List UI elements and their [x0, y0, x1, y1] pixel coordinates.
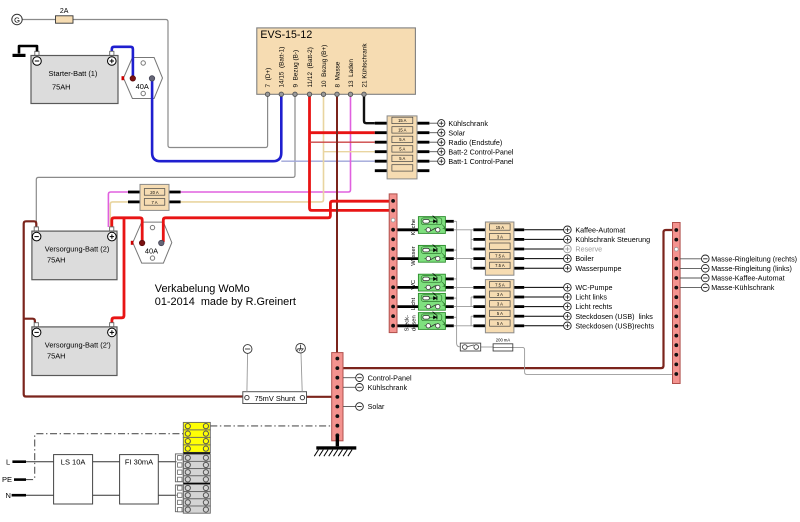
svg-text:5 A: 5 A	[497, 321, 503, 326]
svg-text:8 Masse: 8 Masse	[334, 61, 341, 87]
svg-text:75mV Shunt: 75mV Shunt	[254, 394, 295, 403]
svg-text:LS 10A: LS 10A	[61, 458, 86, 467]
svg-text:Licht rechts: Licht rechts	[575, 302, 612, 311]
svg-text:5 A: 5 A	[497, 311, 503, 316]
svg-text:21 Kühlschrank: 21 Kühlschrank	[361, 43, 368, 88]
svg-text:3 A: 3 A	[497, 302, 503, 307]
svg-text:7.5 A: 7.5 A	[495, 282, 505, 287]
svg-text:20 A: 20 A	[150, 190, 159, 195]
svg-text:Reserve: Reserve	[575, 245, 602, 254]
svg-text:PE: PE	[2, 475, 12, 484]
svg-text:Steck-: Steck-	[405, 315, 411, 331]
svg-text:15 A: 15 A	[496, 225, 505, 230]
svg-text:3 A: 3 A	[497, 234, 503, 239]
svg-text:Wasserpumpe: Wasserpumpe	[575, 264, 621, 273]
svg-text:Masse-Kühlschrank: Masse-Kühlschrank	[711, 283, 775, 292]
svg-text:WC: WC	[411, 280, 417, 290]
svg-text:dosen: dosen	[411, 315, 417, 331]
svg-text:Versorgung-Batt (2): Versorgung-Batt (2)	[45, 245, 110, 254]
svg-text:Kühlschrank Steuerung: Kühlschrank Steuerung	[575, 235, 650, 244]
svg-text:11/12 (Batt-2): 11/12 (Batt-2)	[307, 47, 314, 87]
svg-text:7 (D+): 7 (D+)	[265, 68, 272, 88]
svg-text:7 A: 7 A	[151, 200, 157, 205]
svg-text:7.5 A: 7.5 A	[495, 263, 505, 268]
svg-text:Verkabelung WoMo: Verkabelung WoMo	[155, 283, 250, 295]
svg-text:75AH: 75AH	[47, 256, 66, 265]
svg-text:Kaffee-Automat: Kaffee-Automat	[575, 225, 625, 234]
svg-text:Kühlschrank: Kühlschrank	[368, 383, 408, 392]
svg-text:Control-Panel: Control-Panel	[368, 373, 412, 382]
svg-text:WC-Pumpe: WC-Pumpe	[575, 283, 612, 292]
svg-text:13 Laden: 13 Laden	[348, 59, 355, 88]
svg-text:Solar: Solar	[368, 402, 385, 411]
svg-text:Boiler: Boiler	[575, 254, 594, 263]
svg-text:15 A: 15 A	[398, 128, 407, 133]
svg-text:15 A: 15 A	[398, 118, 407, 123]
svg-text:10 Bezug (B+): 10 Bezug (B+)	[321, 45, 328, 88]
svg-text:N: N	[6, 491, 11, 500]
svg-text:Solar: Solar	[448, 128, 465, 137]
svg-text:L: L	[6, 457, 10, 466]
svg-text:Küche: Küche	[411, 219, 417, 235]
svg-text:Masse-Ringleitung (rechts): Masse-Ringleitung (rechts)	[711, 254, 797, 263]
svg-text:Versorgung-Batt (2'): Versorgung-Batt (2')	[45, 340, 111, 349]
svg-text:5 A: 5 A	[399, 137, 405, 142]
svg-text:Masse-Ringleitung (links): Masse-Ringleitung (links)	[711, 264, 792, 273]
svg-text:200 mA: 200 mA	[496, 337, 511, 342]
svg-text:Wasser: Wasser	[411, 246, 417, 266]
svg-text:5 A: 5 A	[399, 156, 405, 161]
svg-text:7.5 A: 7.5 A	[495, 254, 505, 259]
svg-text:3 A: 3 A	[497, 292, 503, 297]
svg-text:Licht: Licht	[411, 297, 417, 310]
svg-text:Licht links: Licht links	[575, 293, 607, 302]
svg-text:40A: 40A	[145, 247, 158, 256]
svg-text:Batt-2 Control-Panel: Batt-2 Control-Panel	[448, 147, 514, 156]
svg-text:Steckdosen (USB)rechts: Steckdosen (USB)rechts	[575, 321, 654, 330]
svg-text:EVS-15-12: EVS-15-12	[260, 29, 312, 41]
svg-text:Batt-1 Control-Panel: Batt-1 Control-Panel	[448, 157, 514, 166]
svg-text:Kühlschrank: Kühlschrank	[448, 119, 488, 128]
svg-text:75AH: 75AH	[47, 352, 66, 361]
svg-text:Steckdosen (USB) links: Steckdosen (USB) links	[575, 312, 653, 321]
svg-text:G: G	[14, 15, 20, 24]
svg-text:FI 30mA: FI 30mA	[125, 458, 153, 467]
svg-text:9 Bezug (B-): 9 Bezug (B-)	[292, 50, 299, 88]
svg-text:Starter-Batt (1): Starter-Batt (1)	[49, 69, 98, 78]
svg-text:14/15 (Batt-1): 14/15 (Batt-1)	[279, 47, 286, 88]
svg-text:75AH: 75AH	[52, 83, 71, 92]
svg-text:Radio (Endstufe): Radio (Endstufe)	[448, 138, 502, 147]
svg-text:Masse-Kaffee-Automat: Masse-Kaffee-Automat	[711, 274, 784, 283]
svg-text:5 A: 5 A	[399, 147, 405, 152]
svg-text:40A: 40A	[136, 82, 149, 91]
svg-text:01-2014 made by R.Greinert: 01-2014 made by R.Greinert	[155, 296, 296, 308]
svg-text:2A: 2A	[60, 8, 69, 15]
